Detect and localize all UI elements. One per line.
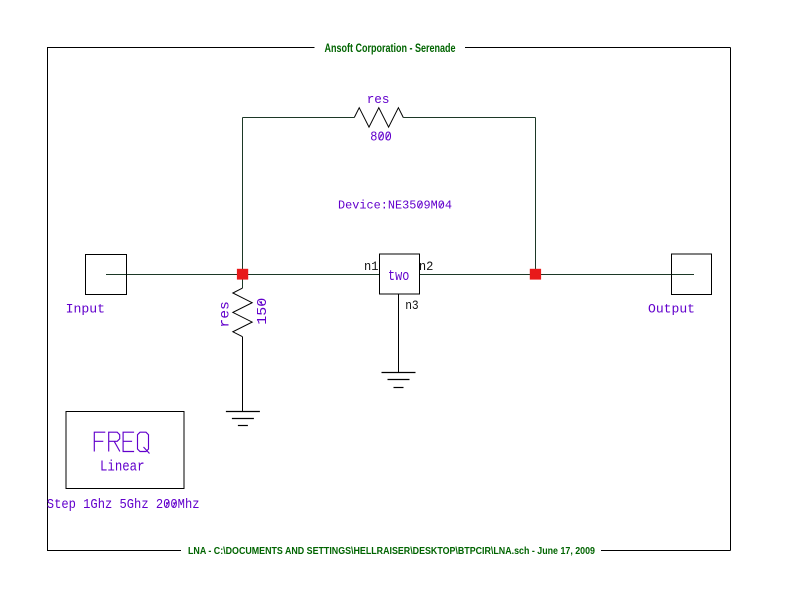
svg-text:Output: Output bbox=[648, 303, 695, 317]
svg-text:n2: n2 bbox=[419, 259, 434, 274]
svg-text:n3: n3 bbox=[405, 298, 419, 313]
svg-text:Ansoft Corporation - Serenade: Ansoft Corporation - Serenade bbox=[325, 41, 456, 55]
svg-text:Input: Input bbox=[66, 303, 106, 317]
svg-text:LNA - C:\DOCUMENTS AND SETTING: LNA - C:\DOCUMENTS AND SETTINGS\HELLRAIS… bbox=[188, 545, 595, 557]
svg-text:Device:NE3509M04: Device:NE3509M04 bbox=[338, 199, 452, 213]
svg-text:800: 800 bbox=[370, 130, 392, 146]
svg-text:Step 1Ghz 5Ghz 200Mhz: Step 1Ghz 5Ghz 200Mhz bbox=[47, 497, 200, 513]
svg-text:n1: n1 bbox=[364, 259, 379, 274]
svg-text:150: 150 bbox=[255, 298, 271, 325]
svg-text:res: res bbox=[217, 301, 233, 328]
svg-text:res: res bbox=[367, 92, 390, 107]
svg-text:two: two bbox=[388, 268, 409, 285]
svg-text:Linear: Linear bbox=[100, 460, 145, 476]
